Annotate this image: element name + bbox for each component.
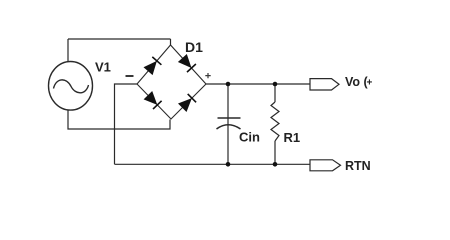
wire top rail from V1 to bridge top: [68, 39, 171, 62]
AC source V1 sine wave: [54, 80, 89, 93]
label minus at bridge left: [126, 75, 134, 77]
wire Cin branch leads: [227, 84, 229, 164]
svg-text:Vo (: Vo (: [345, 75, 369, 89]
node junction dot Cin bottom: [226, 162, 231, 167]
connector flag RTN: [310, 160, 341, 171]
svg-text:Cin: Cin: [239, 130, 260, 145]
svg-text:V1: V1: [95, 60, 111, 75]
svg-text:R1: R1: [284, 130, 301, 145]
connector flag Vo: [310, 79, 339, 90]
wire bridge left vertex to bottom rail: [115, 84, 138, 164]
svg-text:D1: D1: [185, 39, 203, 55]
capacitor Cin plates: [217, 118, 241, 129]
bridge D1 diode bottom-left (left vertex to bottom vertex): [144, 91, 162, 109]
bridge D1 diamond edges: [137, 45, 206, 119]
wire V1 bottom to bridge bottom: [68, 110, 170, 129]
node junction dot R1 top: [273, 82, 278, 87]
node junction dot Cin top: [226, 82, 231, 87]
svg-text:RTN: RTN: [345, 159, 371, 173]
bridge D1 diode top-left (left vertex to top vertex): [144, 57, 162, 75]
wire R1 branch leads: [274, 84, 276, 164]
svg-text:+: +: [367, 78, 373, 89]
AC source V1 circle: [49, 62, 93, 111]
node junction dot R1 bottom: [273, 162, 278, 167]
bridge D1 diode bottom-right (bottom vertex to right vertex): [178, 94, 196, 112]
resistor R1 zigzag: [271, 102, 279, 141]
wire bridge right vertex to Vo flag: [206, 83, 310, 85]
label plus at bridge right: [205, 73, 210, 78]
wire bottom rail to RTN flag: [115, 163, 311, 165]
bridge D1 diode top-right (top vertex to right vertex): [178, 54, 196, 72]
